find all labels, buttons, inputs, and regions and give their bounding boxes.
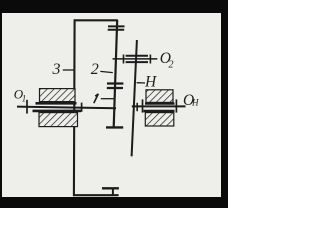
- svg-text:2: 2: [91, 61, 99, 78]
- svg-text:1: 1: [22, 93, 27, 103]
- svg-text:3: 3: [52, 61, 61, 78]
- svg-text:H: H: [144, 74, 157, 91]
- svg-text:H: H: [191, 98, 199, 108]
- svg-text:2: 2: [169, 60, 174, 71]
